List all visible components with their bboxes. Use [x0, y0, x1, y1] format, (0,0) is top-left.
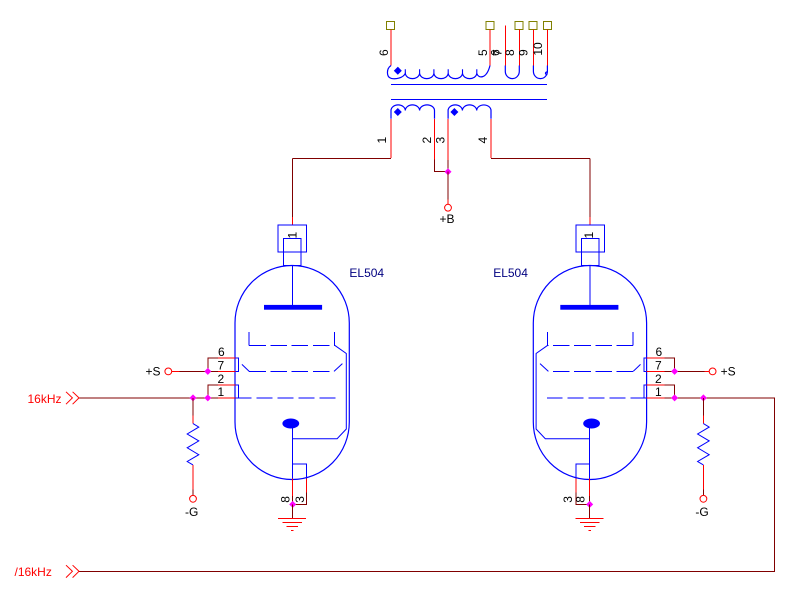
svg-text:+S: +S [146, 364, 161, 378]
wire tube V1 pin 3 loop [293, 478, 307, 504]
junction grid right node B [700, 394, 707, 401]
svg-text:16kHz: 16kHz [28, 392, 62, 406]
transformer T1 core lines [391, 85, 547, 100]
tube V1 pin notch 2-1 [236, 385, 239, 398]
junction grid left node B [204, 394, 211, 401]
tube V2 pin notch 2-1 [644, 385, 647, 398]
junction +S left node [204, 368, 211, 375]
tube V2 pin notch 6-7 [644, 358, 647, 371]
transformer T1 terminal square pin 8 [515, 22, 523, 30]
svg-text:EL504: EL504 [493, 266, 528, 280]
ground symbol left [278, 519, 306, 531]
svg-text:1: 1 [286, 231, 300, 238]
wire pin 7 stub left [208, 370, 236, 372]
transformer T1 secondary winding pins 7-8 [505, 66, 519, 79]
tube V1 cathode [282, 419, 299, 429]
svg-text:4: 4 [476, 136, 490, 143]
wire +S right [675, 370, 710, 372]
wire pin 2 loop right [647, 385, 675, 398]
tube V1 envelope [235, 266, 349, 480]
svg-text:3: 3 [293, 496, 307, 503]
wire tube V2 pin 8 cathode to ground [589, 478, 591, 504]
svg-text:2: 2 [420, 136, 434, 143]
svg-text:6: 6 [377, 49, 391, 56]
chevron 16kHz input [66, 392, 79, 404]
terminal -G right circle [700, 495, 707, 502]
tube V2 envelope [533, 266, 646, 480]
svg-text:+B: +B [440, 212, 455, 226]
tube V1 anode plate [264, 305, 322, 310]
svg-text:-G: -G [695, 505, 708, 519]
tube V2 grid2 screen [540, 364, 641, 372]
svg-text:-G: -G [185, 505, 198, 519]
transformer T1 secondary winding cusp ticks [405, 69, 477, 73]
wire tube V2 pin 3 loop [576, 478, 590, 504]
tube V1 cathode stem [292, 426, 294, 478]
svg-text:7: 7 [655, 358, 662, 372]
junction grid right node A [671, 394, 678, 401]
tube V2 grid3 beam plate [536, 332, 633, 439]
resistor R1 wire bottom [192, 465, 194, 495]
wire pin 1 stub right [647, 397, 675, 399]
transformer T1 terminal square pin 10 [544, 22, 552, 30]
svg-text:6: 6 [218, 345, 225, 359]
svg-text:8: 8 [574, 496, 588, 503]
tube V2 anode stem [589, 266, 591, 305]
svg-text:8: 8 [279, 496, 293, 503]
ground symbol right [576, 519, 604, 531]
terminal +B circle [445, 204, 452, 211]
wire junction to +B terminal [447, 172, 449, 205]
svg-text:7: 7 [217, 358, 224, 372]
svg-text:1: 1 [375, 136, 389, 143]
svg-text:1: 1 [582, 231, 596, 238]
transformer T1 secondary winding pins 9-10 [533, 66, 547, 79]
tube V1 top cap inner box [284, 238, 301, 265]
wire pin 2 loop left [208, 385, 236, 398]
terminal +S right circle [709, 368, 716, 375]
wire pin 8 top [518, 30, 520, 66]
wire to ground right [589, 504, 591, 518]
wire pin 6 loop left [208, 358, 236, 371]
junction grid left node A [190, 394, 197, 401]
tube V2 top cap inner box [582, 238, 599, 265]
svg-text:2: 2 [217, 372, 224, 386]
transformer T1 secondary winding pins 6-5 [387, 66, 490, 79]
tube V2 top cap outer box [576, 225, 604, 252]
svg-text:10: 10 [531, 42, 545, 56]
wire pin 7 stub right [647, 370, 675, 372]
tube V2 bottom pin notch 8-3 [576, 464, 590, 479]
wire /16kHz loop net [79, 398, 774, 571]
transformer T1 secondary phase dot [395, 67, 402, 74]
transformer T1 terminal square pin 5 [486, 22, 494, 30]
wire to ground left [292, 504, 294, 518]
transformer T1 primary winding pins 3-4 [448, 105, 491, 119]
wire pin 1 stub left [208, 397, 236, 399]
svg-text:6: 6 [656, 345, 663, 359]
svg-text:1: 1 [655, 385, 662, 399]
resistor R1 wire top [192, 398, 194, 424]
wire pin 4 to right anode [491, 119, 590, 225]
resistor R2 body [698, 424, 710, 465]
tube V1 anode stem [292, 265, 294, 305]
resistor R1 body [187, 424, 199, 465]
wire pin 2 to +B [435, 119, 449, 172]
tube V2 grid1 control [547, 397, 647, 399]
tube V2 cathode [583, 419, 600, 429]
transformer T1 primary phase dot 1 [395, 109, 402, 116]
transformer T1 terminal square pin 9 [529, 22, 537, 30]
junction +S right node [671, 368, 678, 375]
wire pin 5 top [489, 30, 491, 66]
wire pin 7 top [504, 26, 506, 66]
resistor R2 wire bottom [702, 465, 704, 495]
svg-text:2: 2 [655, 372, 662, 386]
svg-text:+S: +S [721, 364, 736, 378]
tube V2 cathode stem [589, 426, 591, 478]
wire +S left to junction [172, 370, 208, 372]
terminal -G left circle [190, 495, 197, 502]
svg-text:/16kHz: /16kHz [15, 565, 52, 579]
tube V1 grid3 beam plate [249, 332, 346, 439]
wire pin 10 top [546, 30, 548, 66]
junction ground left node [289, 501, 296, 508]
wire pin 9 top [532, 30, 534, 66]
tube V1 grid1 control [236, 397, 336, 399]
wire pin 1 to left anode [293, 119, 392, 225]
svg-text:1: 1 [217, 385, 224, 399]
svg-text:9: 9 [516, 49, 530, 56]
resistor R2 wire top [702, 398, 704, 424]
wire pin 3 to +B [447, 119, 449, 172]
wire tube V1 pin 8 cathode to ground [292, 478, 294, 504]
svg-text:8: 8 [503, 49, 517, 56]
svg-text:3: 3 [433, 136, 447, 143]
transformer T1 primary winding pins 1-2 [391, 105, 435, 119]
wire pin 6 top [390, 30, 392, 66]
svg-text:EL504: EL504 [349, 266, 384, 280]
tube V1 top cap outer box [278, 225, 306, 252]
junction +B node [445, 168, 452, 175]
junction ground right node [586, 501, 593, 508]
tube V1 grid2 screen [242, 364, 343, 372]
terminal +S left circle [165, 368, 172, 375]
wire 16kHz input net [79, 397, 208, 399]
transformer T1 terminal square pin 6 [387, 22, 395, 30]
tube V2 anode plate [560, 305, 618, 310]
transformer T1 primary phase dot 2 [451, 109, 458, 116]
chevron /16kHz output [66, 565, 79, 577]
tube V1 pin notch 6-7 [236, 358, 239, 371]
wire pin 6 loop right [647, 358, 675, 371]
tube V1 bottom pin notch 8-3 [293, 464, 307, 479]
